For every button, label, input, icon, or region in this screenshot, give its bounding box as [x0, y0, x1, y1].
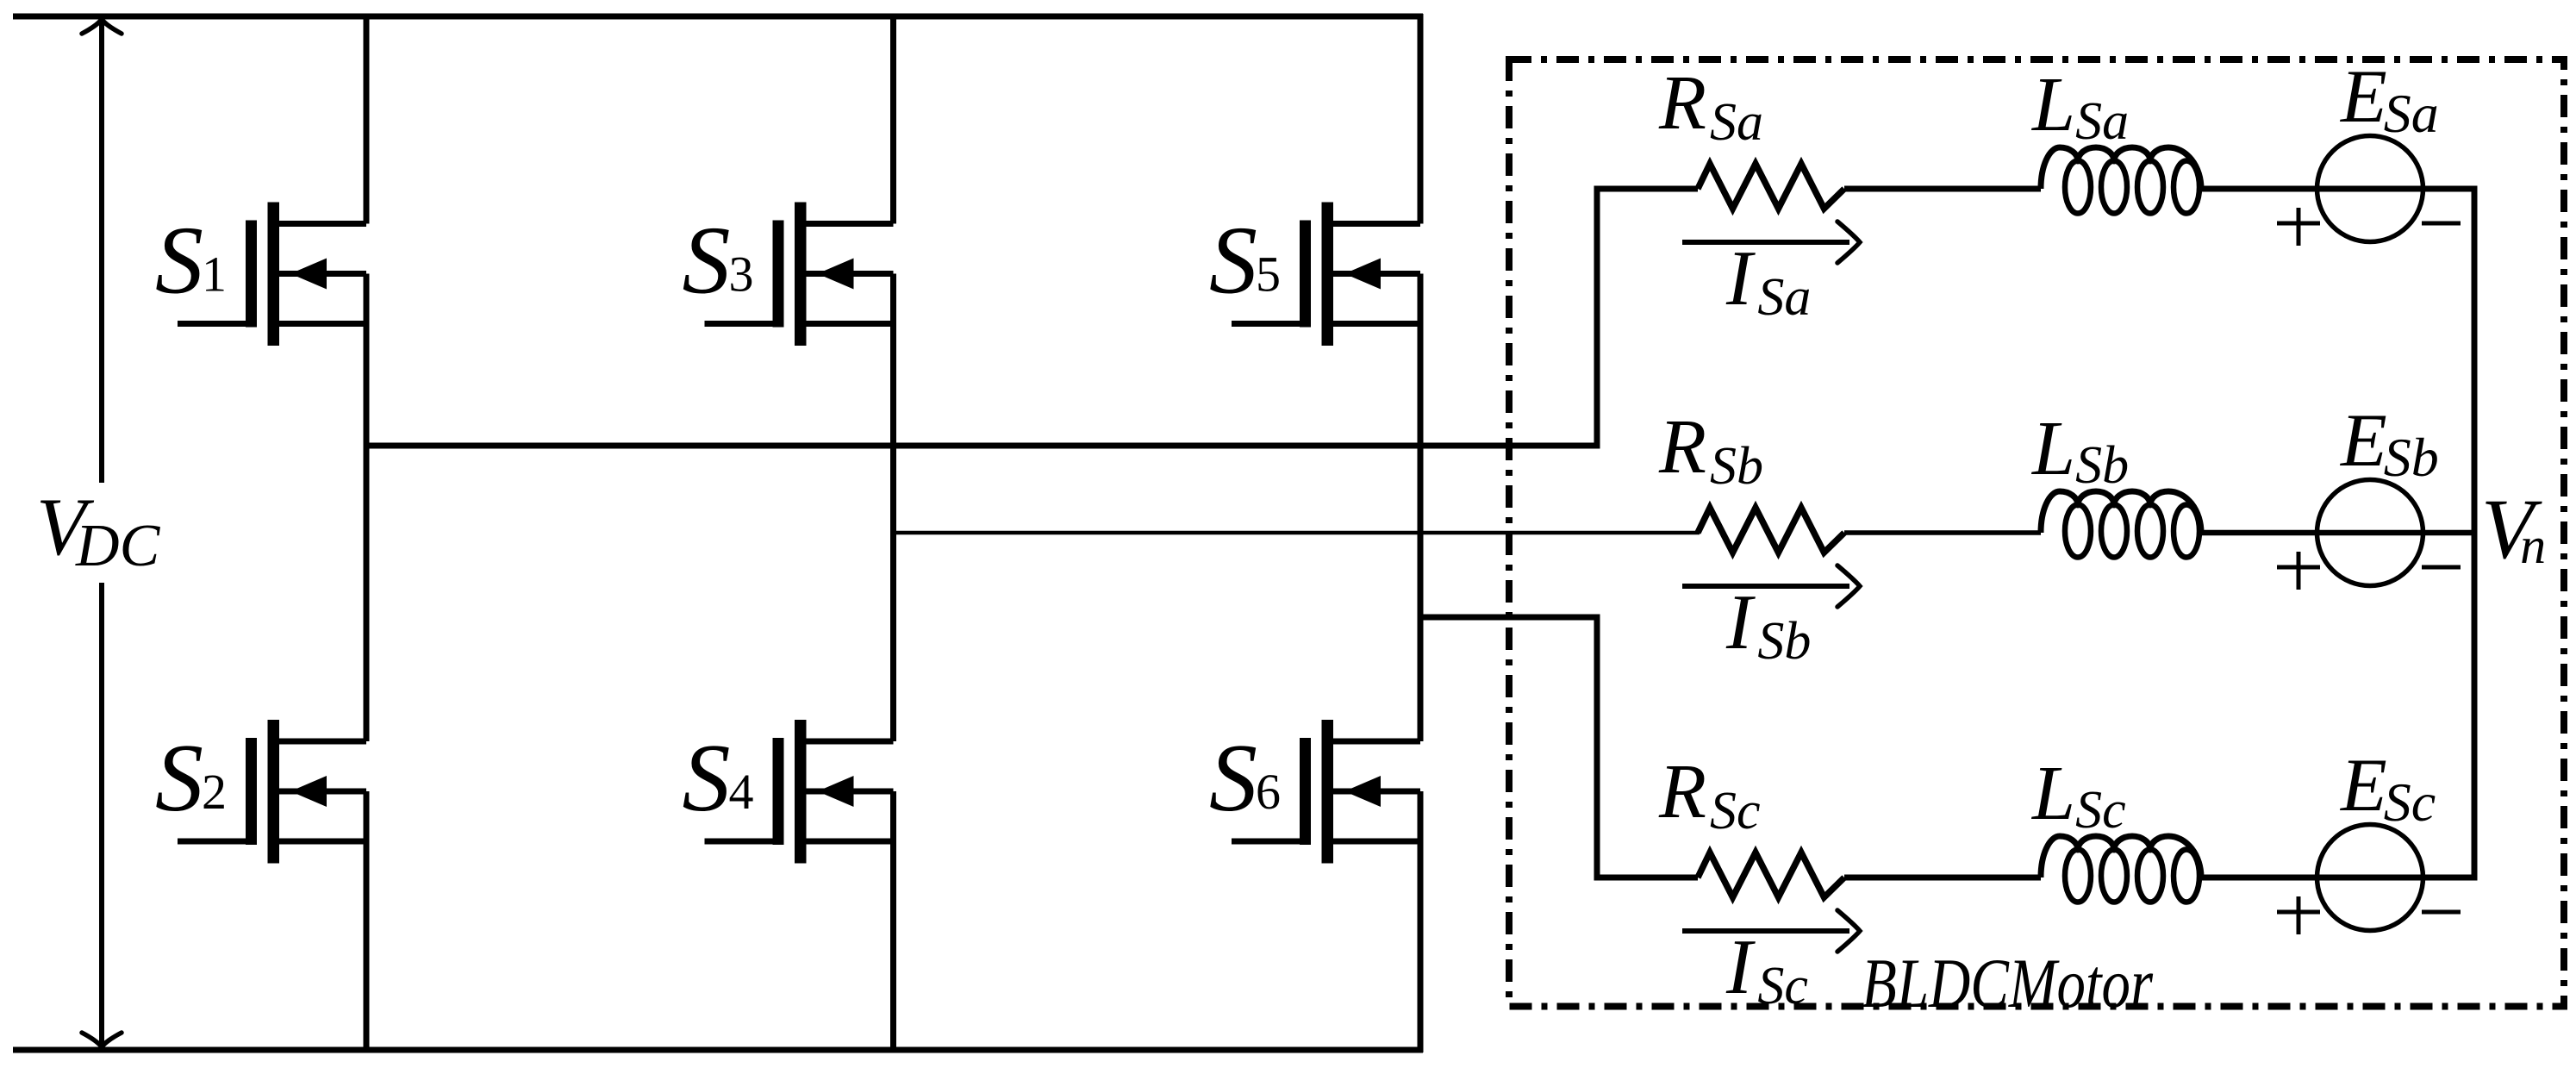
svg-text:BLDCMotor: BLDCMotor	[1862, 944, 2154, 1022]
